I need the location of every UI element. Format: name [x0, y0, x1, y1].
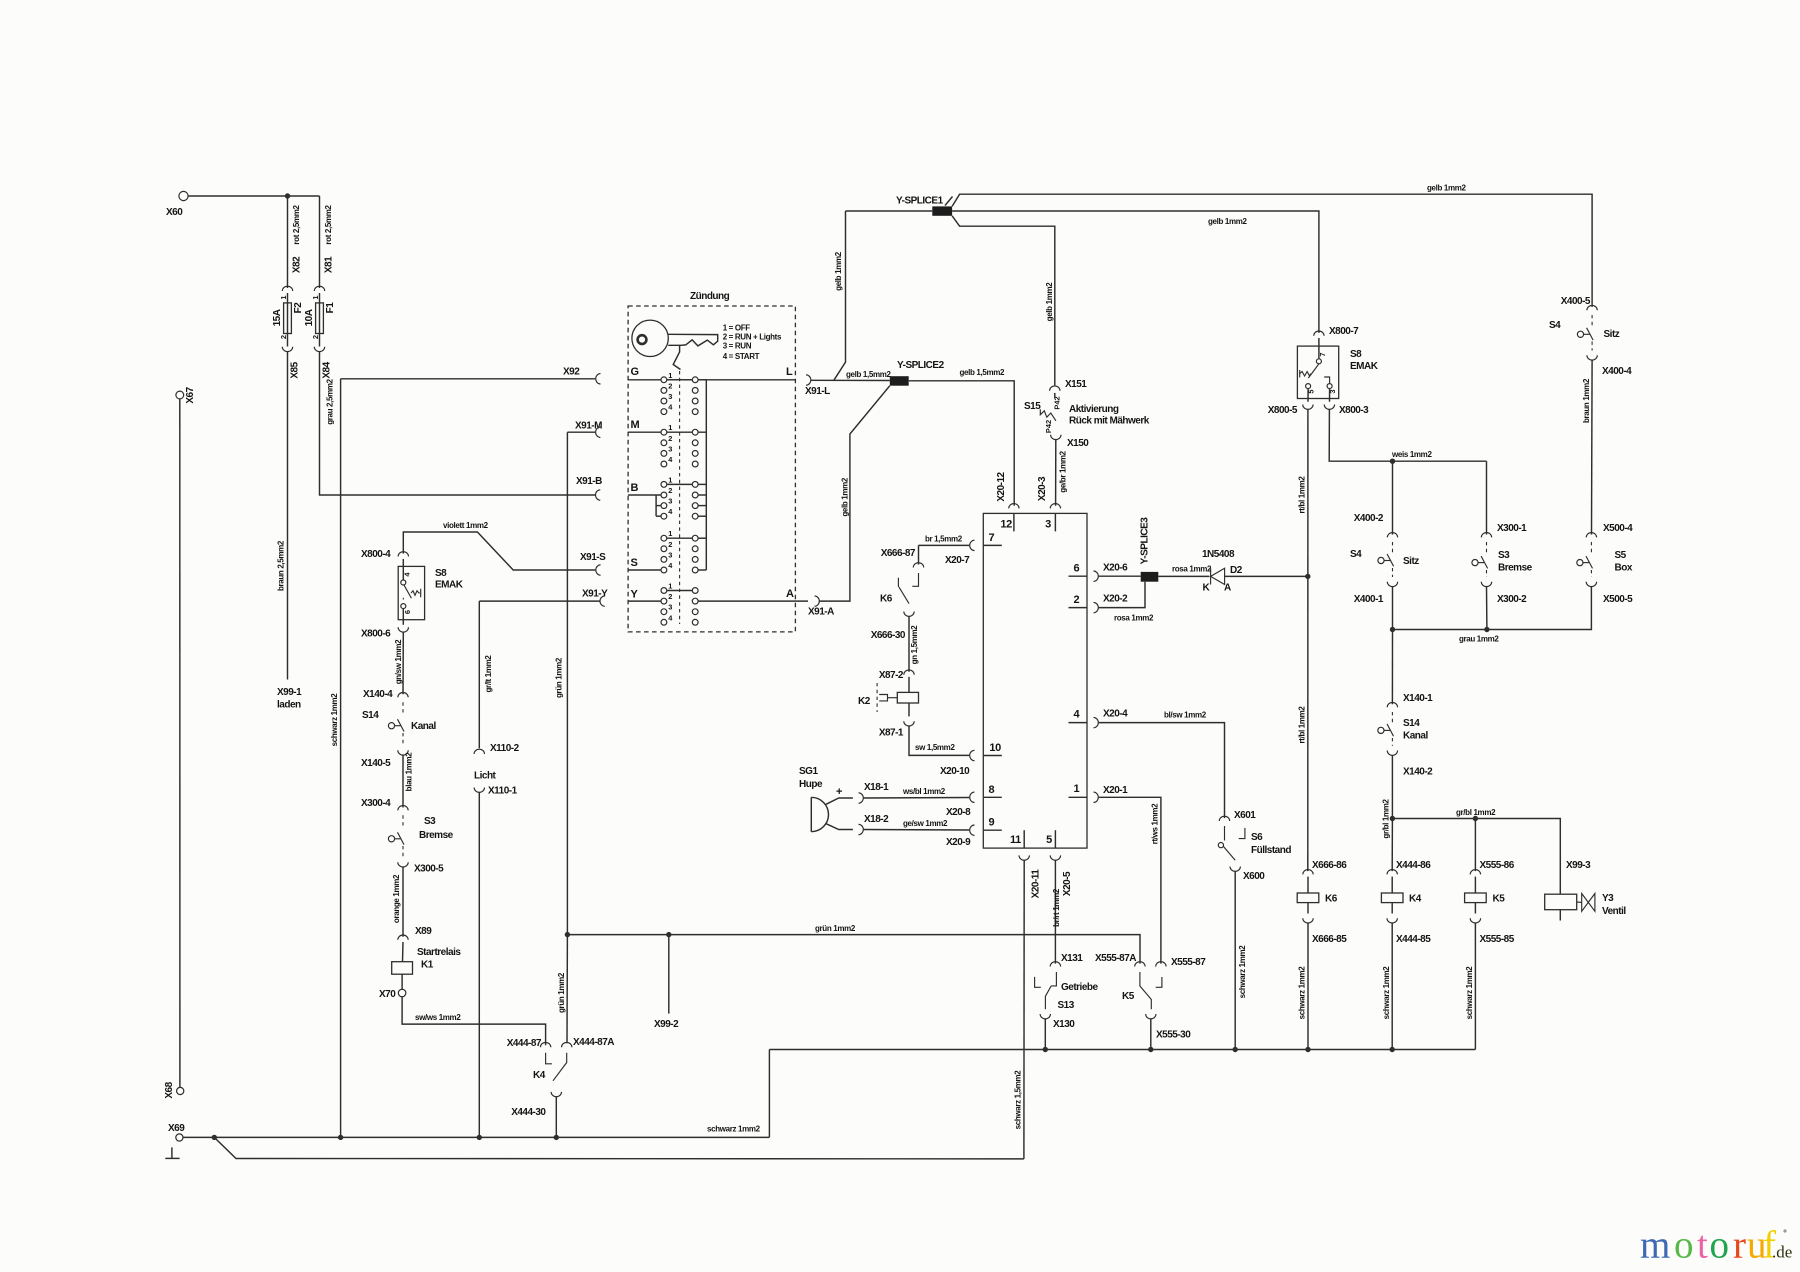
svg-text:+: + — [836, 786, 842, 798]
wire gr/bl down to K4 coil — [1391, 819, 1393, 872]
connector X300-1 — [1481, 533, 1491, 538]
connector X140-2 — [1387, 751, 1397, 756]
pin 10 — [983, 755, 1002, 757]
switch S8 EMAK right — [1297, 346, 1338, 398]
wire Y1 row across — [667, 590, 693, 592]
svg-text:12: 12 — [1000, 519, 1012, 531]
svg-text:X20-11: X20-11 — [1031, 869, 1042, 899]
wire ground bus from X69 — [183, 1136, 769, 1138]
wire gruen 1mm2 to X444-87A — [566, 935, 568, 1044]
wire br 1,5mm2 X666-87 to X20-7 — [919, 544, 970, 546]
connector X20-10 — [970, 750, 975, 760]
svg-text:br/rt 1mm2: br/rt 1mm2 — [1052, 888, 1061, 927]
svg-text:X67: X67 — [185, 386, 196, 403]
svg-text:SG1: SG1 — [799, 766, 818, 777]
svg-text:X20-5: X20-5 — [1062, 871, 1073, 896]
pin 8 — [983, 796, 1002, 798]
svg-text:S3: S3 — [424, 816, 436, 827]
svg-text:3 = RUN: 3 = RUN — [723, 342, 752, 351]
svg-text:M: M — [631, 419, 640, 431]
relay coil K5 — [1474, 877, 1476, 893]
svg-text:X400-2: X400-2 — [1354, 513, 1384, 524]
svg-text:S4: S4 — [1549, 320, 1561, 331]
wire X20-6 to Y-SPLICE3 — [1099, 575, 1141, 577]
svg-text:X300-4: X300-4 — [361, 798, 391, 809]
connector X20-6 — [1094, 571, 1099, 581]
svg-text:.de: .de — [1772, 1243, 1792, 1262]
connector X130 — [1040, 1014, 1050, 1019]
svg-text:X555-86: X555-86 — [1480, 860, 1515, 871]
pin 5 — [1054, 830, 1056, 848]
wire braun 1mm2 to X500-4 — [1591, 360, 1594, 534]
wire ws/bl 1mm2 to X20-8 — [864, 797, 970, 800]
wire grau 1mm2 bus — [1393, 587, 1592, 630]
pin 1 — [1069, 796, 1088, 798]
wire weis branch down to X400-2 — [1392, 461, 1394, 534]
node X99-2 branch — [666, 932, 671, 937]
svg-text:X130: X130 — [1053, 1019, 1075, 1030]
svg-text:1: 1 — [311, 295, 320, 299]
connector X400-4 — [1587, 355, 1597, 360]
svg-text:X91-L: X91-L — [805, 386, 830, 397]
connector X500-4 — [1586, 533, 1596, 538]
svg-text:3: 3 — [668, 444, 672, 453]
svg-text:gelb 1mm2: gelb 1mm2 — [840, 477, 849, 517]
connector X82 — [282, 286, 292, 291]
svg-text:10A: 10A — [304, 309, 315, 326]
wire X91-A gelb 1mm2 up to Y-SPLICE2 — [820, 386, 890, 601]
svg-text:rt/ws 1mm2: rt/ws 1mm2 — [1150, 803, 1159, 844]
svg-text:K2: K2 — [858, 696, 871, 707]
connector X666-30 — [904, 612, 914, 617]
svg-text:1: 1 — [668, 423, 672, 432]
pin 4 — [1069, 722, 1088, 724]
svg-text:X20-1: X20-1 — [1103, 785, 1128, 796]
svg-text:X300-1: X300-1 — [1497, 523, 1527, 534]
svg-text:X110-1: X110-1 — [488, 786, 518, 797]
svg-text:10: 10 — [989, 742, 1001, 754]
svg-text:Bremse: Bremse — [419, 830, 454, 841]
svg-text:X91-A: X91-A — [808, 607, 834, 618]
svg-text:X20-9: X20-9 — [946, 837, 971, 848]
svg-text:rt/bl 1mm2: rt/bl 1mm2 — [1298, 476, 1307, 514]
svg-text:S14: S14 — [362, 710, 379, 721]
wire Y-SPLICE1 top gelb 1mm2 to X400-5 — [952, 194, 1592, 307]
ignition contact circles left column — [661, 377, 667, 625]
svg-text:Licht: Licht — [474, 771, 497, 782]
svg-text:X444-85: X444-85 — [1396, 934, 1431, 945]
connector X500-5 — [1586, 582, 1596, 587]
svg-text:6: 6 — [403, 610, 412, 614]
wire S row pin line — [628, 569, 664, 571]
svg-text:K4: K4 — [533, 1070, 546, 1081]
svg-text:X800-6: X800-6 — [361, 629, 391, 640]
connector X110-2 — [474, 749, 484, 754]
svg-text:rosa 1mm2: rosa 1mm2 — [1172, 565, 1212, 574]
svg-text:X84: X84 — [321, 361, 332, 378]
wire weis 1mm2 X800-3 down — [1329, 409, 1486, 461]
svg-text:grau 2,5mm2: grau 2,5mm2 — [326, 378, 335, 424]
svg-text:Y: Y — [631, 589, 639, 601]
wire B rows to bus — [698, 483, 706, 485]
svg-text:S13: S13 — [1058, 1000, 1075, 1011]
svg-text:gelb 1mm2: gelb 1mm2 — [1208, 217, 1248, 226]
wire X20-1 rt/ws 1mm2 to X555-87 — [1099, 797, 1161, 963]
wire rot 2,5mm2 down to X82 — [287, 196, 289, 288]
connector X91-L — [806, 375, 811, 385]
wire X92 schwarz 1mm2 — [341, 378, 596, 380]
svg-text:rt/bl 1mm2: rt/bl 1mm2 — [1298, 706, 1307, 744]
connector X87-2 — [904, 670, 914, 675]
svg-text:schwarz 1mm2: schwarz 1mm2 — [1298, 966, 1307, 1020]
connector X85 — [282, 347, 292, 352]
svg-text:2: 2 — [668, 486, 672, 495]
svg-text:X140-1: X140-1 — [1403, 693, 1433, 704]
connector X110-1 — [474, 788, 484, 793]
wire riser to Y-SPLICE1 — [834, 211, 846, 380]
svg-text:S5: S5 — [1615, 550, 1627, 561]
svg-text:15A: 15A — [272, 309, 283, 326]
svg-text:braun 1mm2: braun 1mm2 — [1582, 378, 1591, 423]
svg-text:rosa 1mm2: rosa 1mm2 — [1114, 614, 1154, 623]
svg-text:X140-2: X140-2 — [1403, 767, 1433, 778]
svg-text:X300-5: X300-5 — [414, 864, 444, 875]
svg-text:sw/ws 1mm2: sw/ws 1mm2 — [415, 1013, 461, 1022]
svg-text:X555-87A: X555-87A — [1095, 953, 1136, 964]
svg-text:X444-87: X444-87 — [507, 1038, 542, 1049]
svg-text:X151: X151 — [1065, 379, 1087, 390]
svg-text:schwarz 1mm2: schwarz 1mm2 — [1382, 966, 1391, 1020]
wire G row to L — [628, 379, 795, 381]
svg-text:X666-85: X666-85 — [1312, 934, 1347, 945]
wire S1 row across — [667, 537, 693, 539]
connector X555-85 — [1470, 918, 1480, 923]
svg-text:4 = START: 4 = START — [723, 352, 760, 361]
svg-text:Kanal: Kanal — [411, 721, 436, 732]
wire X91-L to Y-SPLICE2 gelb 1,5mm2 — [811, 379, 890, 381]
svg-text:rot 2,5mm2: rot 2,5mm2 — [292, 205, 301, 245]
svg-text:grau 1mm2: grau 1mm2 — [1459, 635, 1499, 644]
svg-text:7: 7 — [1318, 352, 1327, 356]
connector X444-87A — [562, 1042, 572, 1047]
node junctions grau — [1390, 627, 1395, 632]
svg-text:2: 2 — [668, 540, 672, 549]
svg-text:P42: P42 — [1044, 420, 1053, 433]
svg-text:schwarz 1mm2: schwarz 1mm2 — [1465, 966, 1474, 1020]
wire Y row pin line — [628, 600, 664, 602]
connector X444-86 — [1387, 870, 1397, 875]
connector X555-30 — [1146, 1014, 1156, 1019]
pin 9 — [983, 829, 1002, 831]
pin 6 — [1069, 575, 1088, 577]
wire schwarz 1mm2 K5 to bus — [1474, 923, 1476, 1050]
key symbol — [632, 320, 668, 356]
connector X400-5 — [1587, 305, 1597, 310]
connector X444-85 — [1387, 918, 1397, 923]
svg-text:X140-5: X140-5 — [361, 758, 391, 769]
svg-text:grün 1mm2: grün 1mm2 — [815, 924, 856, 933]
connector X20-12 — [1009, 504, 1019, 509]
svg-text:o: o — [1674, 1224, 1694, 1267]
connector X20-5 — [1050, 855, 1060, 860]
svg-text:F1: F1 — [325, 302, 336, 314]
pin 11 — [1023, 830, 1025, 848]
svg-text:X92: X92 — [563, 367, 580, 378]
pin 7 — [983, 544, 1002, 546]
svg-text:Bremse: Bremse — [1498, 563, 1533, 574]
svg-text:11: 11 — [1010, 834, 1021, 846]
svg-text:S3: S3 — [1498, 550, 1510, 561]
wire grau 2,5mm2 X84 to X91-B — [320, 352, 596, 495]
ground — [171, 1147, 173, 1158]
svg-text:t: t — [1697, 1224, 1708, 1267]
svg-text:m: m — [1640, 1224, 1670, 1267]
svg-text:EMAK: EMAK — [435, 580, 464, 591]
wire gr/bl 1mm2 bus — [1392, 819, 1560, 895]
svg-text:Getriebe: Getriebe — [1061, 982, 1099, 993]
ignition position digits — [668, 371, 673, 623]
svg-text:P42: P42 — [1053, 396, 1062, 409]
relay coil K6 — [1307, 877, 1309, 893]
connector X666-87 — [913, 563, 923, 568]
node junctions relay bus — [1043, 1047, 1048, 1052]
connector X81 — [314, 286, 324, 291]
svg-text:5: 5 — [1046, 834, 1052, 846]
svg-text:K5: K5 — [1493, 894, 1506, 905]
node gruen T junction — [565, 932, 570, 937]
svg-text:X150: X150 — [1067, 438, 1089, 449]
svg-text:S8: S8 — [1350, 349, 1362, 360]
wire X20-4 bl/sw 1mm2 to X601 — [1099, 723, 1225, 819]
wire sw/ws 1mm2 X70 to X444-87 — [402, 997, 545, 1045]
key mechanical link — [673, 346, 680, 370]
svg-text:X666-30: X666-30 — [871, 630, 906, 641]
connector X800-7 — [1314, 331, 1324, 336]
wire B1 row across — [667, 483, 693, 485]
svg-text:gelb 1,5mm2: gelb 1,5mm2 — [846, 370, 892, 379]
svg-text:X68: X68 — [164, 1081, 175, 1098]
svg-text:Sitz: Sitz — [1604, 329, 1620, 340]
wire B row pin line — [628, 494, 664, 496]
svg-text:X18-2: X18-2 — [864, 814, 889, 825]
connector X400-2 — [1387, 533, 1397, 538]
svg-text:gr/bl 1mm2: gr/bl 1mm2 — [1456, 808, 1496, 817]
svg-text:X300-2: X300-2 — [1497, 594, 1527, 605]
svg-text:X444-87A: X444-87A — [573, 1037, 614, 1048]
wire ge/br 1mm2 X150 to X20-3 — [1055, 439, 1057, 505]
wire X444-30 to ground bus — [555, 1097, 557, 1138]
connector X800-6 — [398, 627, 408, 632]
node junctions on ground bus — [338, 1135, 343, 1140]
svg-text:Y3: Y3 — [1602, 893, 1614, 904]
svg-text:schwarz 1,5mm2: schwarz 1,5mm2 — [1013, 1070, 1022, 1130]
connector X20-11 — [1019, 855, 1029, 860]
svg-text:S14: S14 — [1403, 718, 1420, 729]
svg-text:S8: S8 — [435, 568, 447, 579]
wire rt/bl 1mm2 X800-5 down to K6 — [1307, 409, 1309, 871]
wire violett 1mm2 X800-4 to X91-S — [403, 532, 595, 570]
svg-text:gr/bl 1mm2: gr/bl 1mm2 — [1382, 799, 1391, 839]
wire gn 1,5mm2 jumper — [908, 616, 910, 672]
svg-text:o: o — [1710, 1224, 1730, 1267]
svg-text:braun 2,5mm2: braun 2,5mm2 — [277, 540, 286, 591]
svg-text:X555-30: X555-30 — [1156, 1030, 1191, 1041]
svg-text:br 1,5mm2: br 1,5mm2 — [925, 535, 963, 544]
wire X67 to X68 — [179, 399, 181, 1087]
svg-text:X444-30: X444-30 — [511, 1107, 546, 1118]
wire rot 2,5mm2 down to X81 — [319, 196, 321, 288]
svg-text:8: 8 — [989, 784, 995, 796]
svg-text:gn/sw 1mm2: gn/sw 1mm2 — [394, 639, 403, 684]
svg-text:gelb 1mm2: gelb 1mm2 — [1045, 282, 1054, 322]
wire ge/sw 1mm2 to X20-9 — [864, 829, 970, 832]
svg-text:1N5408: 1N5408 — [1202, 549, 1235, 560]
svg-text:K4: K4 — [1409, 894, 1422, 905]
svg-text:X91-B: X91-B — [576, 476, 602, 487]
connector X800-4 — [398, 552, 408, 557]
connector X20-3 — [1050, 504, 1060, 509]
wire Y-SPLICE2 to X20-12 gelb 1,5mm2 — [909, 381, 1015, 506]
svg-text:r: r — [1733, 1224, 1746, 1267]
svg-text:6: 6 — [1074, 563, 1080, 575]
svg-text:3: 3 — [668, 392, 672, 401]
wire schwarz 1mm2 X600 to relay bus — [1234, 871, 1236, 1049]
connector X400-1 — [1387, 582, 1397, 587]
wire B bracket — [655, 495, 657, 516]
svg-text:X70: X70 — [379, 989, 396, 1000]
svg-text:2: 2 — [311, 335, 320, 339]
connector X666-86 — [1303, 870, 1313, 875]
svg-text:G: G — [631, 366, 639, 378]
svg-text:X18-1: X18-1 — [864, 782, 889, 793]
svg-text:Hupe: Hupe — [799, 779, 823, 790]
wire orange 1mm2 to X89 — [402, 867, 404, 937]
svg-text:X20-12: X20-12 — [996, 471, 1007, 501]
connector X18-1 — [859, 793, 864, 803]
wire schwarz 1mm2 K6 to bus — [1307, 923, 1309, 1050]
connector X20-7 — [970, 540, 975, 550]
wire grau junction down to X140-1 — [1391, 630, 1393, 705]
connector X91-A — [815, 596, 820, 606]
svg-text:S15: S15 — [1024, 401, 1041, 412]
svg-text:K6: K6 — [1325, 894, 1338, 905]
svg-text:schwarz 1mm2: schwarz 1mm2 — [1238, 945, 1247, 999]
connector X20-1 — [1094, 792, 1099, 802]
svg-text:X500-4: X500-4 — [1603, 523, 1633, 534]
wire X130 to relay bus — [1044, 1019, 1046, 1050]
connector X131 — [1050, 962, 1060, 967]
svg-text:1: 1 — [1074, 783, 1080, 795]
wire blau 1mm2 to X300-4 — [402, 755, 404, 807]
svg-text:A: A — [786, 588, 794, 600]
svg-text:S4: S4 — [1350, 549, 1362, 560]
svg-text:X666-87: X666-87 — [881, 548, 916, 559]
svg-text:X400-4: X400-4 — [1602, 366, 1632, 377]
svg-text:2: 2 — [668, 381, 672, 390]
wire gruen 1mm2 bus — [567, 935, 1140, 964]
connector X300-4 — [398, 806, 408, 811]
svg-text:Füllstand: Füllstand — [1251, 845, 1291, 856]
controller box — [983, 513, 1087, 848]
svg-text:X91-M: X91-M — [575, 421, 602, 432]
svg-text:X81: X81 — [324, 256, 335, 273]
terminal X70 — [398, 989, 406, 997]
connector X89 — [398, 935, 408, 940]
wire riser ground bus to relay bus — [768, 1050, 770, 1138]
svg-text:gelb 1mm2: gelb 1mm2 — [1427, 184, 1467, 193]
wire gr/bl down to K5 coil — [1474, 819, 1476, 872]
connector X140-5 — [398, 750, 408, 755]
svg-text:schwarz 1mm2: schwarz 1mm2 — [707, 1125, 761, 1134]
node junction X82 column — [285, 193, 290, 198]
wire br/rt 1mm2 X20-5 to X131 — [1054, 860, 1056, 963]
connector X800-3 — [1324, 405, 1334, 410]
wire S4 to bus — [698, 569, 706, 571]
svg-text:orange 1mm2: orange 1mm2 — [392, 874, 401, 923]
node junction diode / rt-bl — [1305, 574, 1310, 579]
svg-text:1: 1 — [668, 475, 672, 484]
svg-text:Y-SPLICE1: Y-SPLICE1 — [896, 196, 944, 207]
svg-text:X800-7: X800-7 — [1329, 326, 1359, 337]
connector X20-9 — [970, 825, 975, 835]
svg-text:X400-1: X400-1 — [1354, 594, 1384, 605]
wire X60 to fuse columns — [188, 195, 319, 197]
svg-text:1: 1 — [279, 295, 288, 299]
terminal X68 — [177, 1087, 184, 1094]
svg-text:3: 3 — [668, 497, 672, 506]
wire gr/bl 1mm2 down to junction — [1391, 755, 1393, 818]
svg-text:gn 1,5mm2: gn 1,5mm2 — [910, 625, 919, 665]
svg-text:3: 3 — [1045, 519, 1051, 531]
svg-text:schwarz 1mm2: schwarz 1mm2 — [330, 693, 339, 747]
svg-text:1: 1 — [668, 529, 672, 538]
connector X555-87 — [1156, 962, 1166, 967]
connector X151 — [1050, 386, 1060, 391]
svg-text:gelb 1,5mm2: gelb 1,5mm2 — [960, 368, 1006, 377]
connector X87-1 — [904, 721, 914, 726]
svg-text:gr/lt 1mm2: gr/lt 1mm2 — [484, 655, 493, 693]
wire G1 M1 S4 circles rows handled by row lines — [664, 379, 706, 381]
wire stub X99-2 — [668, 935, 670, 1014]
logo motoruf.de — [1640, 1224, 1776, 1267]
wire Y-SPLICE1 lower branch gelb 1mm2 to X151 — [952, 216, 1055, 386]
svg-text:X131: X131 — [1061, 953, 1083, 964]
wire X20-2 to Y-SPLICE3 — [1099, 582, 1145, 608]
svg-text:X69: X69 — [168, 1123, 185, 1134]
wire gruen 1mm2 from X91-M — [567, 431, 595, 433]
svg-text:X555-85: X555-85 — [1480, 934, 1515, 945]
connector X300-5 — [398, 862, 408, 867]
svg-text:ge/br 1mm2: ge/br 1mm2 — [1058, 450, 1067, 492]
svg-text:9: 9 — [989, 817, 995, 829]
svg-text:X800-3: X800-3 — [1339, 405, 1369, 416]
svg-text:X20-6: X20-6 — [1103, 563, 1128, 574]
svg-text:Zündung: Zündung — [690, 291, 730, 302]
svg-text:X140-4: X140-4 — [363, 689, 393, 700]
svg-text:sw 1,5mm2: sw 1,5mm2 — [915, 743, 955, 752]
svg-text:2: 2 — [279, 335, 288, 339]
svg-text:X500-5: X500-5 — [1603, 594, 1633, 605]
svg-text:1: 1 — [668, 371, 672, 380]
terminal X67 — [176, 391, 184, 399]
connector X601 — [1219, 816, 1229, 821]
wire sw 1,5mm2 X87-1 to X20-10 — [909, 726, 969, 755]
svg-text:blau 1mm2: blau 1mm2 — [405, 752, 414, 792]
svg-text:bl/sw 1mm2: bl/sw 1mm2 — [1164, 711, 1207, 720]
wire schwarz 1,5mm2 X20-11 to lower bus — [1023, 860, 1025, 1159]
connector X666-85 — [1303, 918, 1313, 923]
connector X20-8 — [970, 792, 975, 802]
